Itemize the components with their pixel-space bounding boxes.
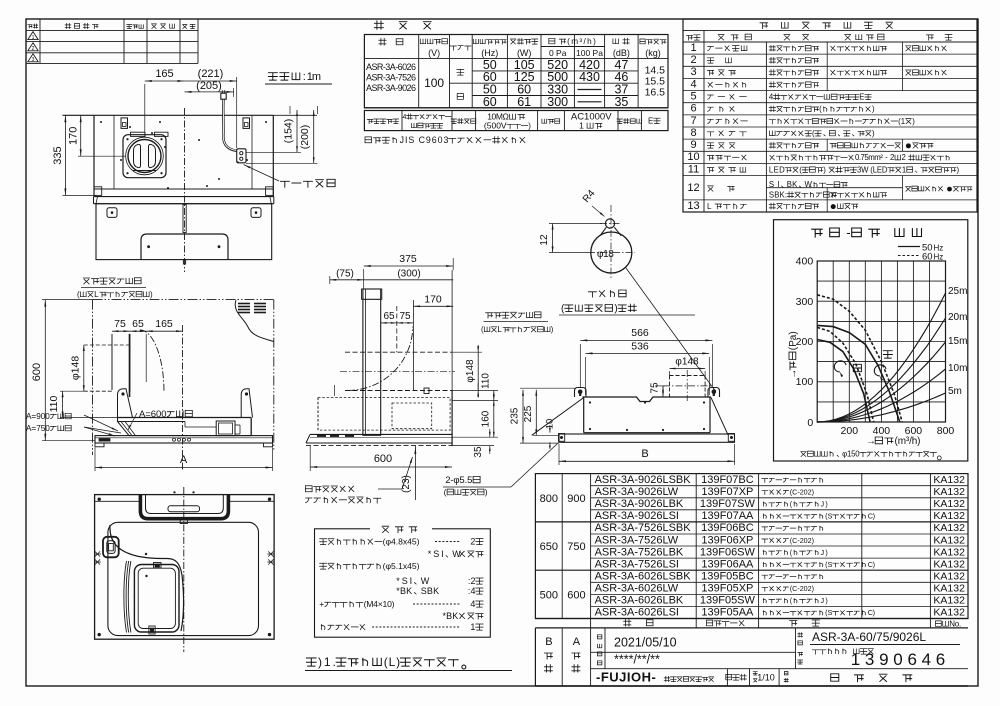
- svg-text:A: A: [573, 636, 581, 648]
- svg-text:35: 35: [614, 95, 628, 109]
- svg-text:170: 170: [424, 294, 442, 306]
- svg-text:3W (LED: 3W (LED: [857, 165, 888, 174]
- svg-text:75: 75: [399, 311, 411, 322]
- svg-text:KA132: KA132: [933, 474, 965, 486]
- svg-text:139F07XP: 139F07XP: [701, 486, 753, 498]
- svg-text:110: 110: [480, 373, 491, 389]
- svg-text:LED: LED: [769, 165, 785, 174]
- svg-text:φ148: φ148: [675, 357, 699, 368]
- svg-text:566: 566: [631, 327, 649, 339]
- svg-text:(154): (154): [283, 119, 295, 144]
- svg-text:E: E: [648, 117, 653, 126]
- svg-text:(: (: [819, 105, 822, 114]
- svg-text:Hz: Hz: [934, 253, 944, 262]
- svg-text:→: →: [866, 436, 876, 447]
- svg-text:11: 11: [688, 163, 699, 175]
- svg-text:139F06SW: 139F06SW: [700, 546, 756, 558]
- svg-text:(Hz): (Hz): [481, 48, 498, 58]
- svg-text:0 Pa: 0 Pa: [549, 48, 567, 58]
- svg-text:2: 2: [32, 46, 35, 52]
- svg-text:(V): (V): [428, 48, 440, 58]
- svg-text:(221): (221): [198, 68, 224, 80]
- svg-text:750: 750: [567, 541, 585, 553]
- svg-text:2: 2: [690, 54, 696, 66]
- svg-text:): ): [872, 105, 875, 114]
- svg-text:)1.: )1.: [318, 655, 336, 669]
- svg-text:139F05SW: 139F05SW: [700, 595, 756, 607]
- svg-text:(Pa): (Pa): [788, 331, 799, 350]
- svg-text:-FUJIOH-: -FUJIOH-: [596, 670, 656, 685]
- svg-text:139F05XP: 139F05XP: [701, 583, 753, 595]
- svg-text:****/**/**: ****/**/**: [614, 653, 660, 667]
- svg-text:): ): [872, 129, 875, 138]
- svg-text:): ): [957, 165, 960, 174]
- svg-text:ASR-3A-60/75/9026L: ASR-3A-60/75/9026L: [812, 630, 926, 644]
- svg-text:KA132: KA132: [933, 558, 965, 570]
- svg-text:W:: W:: [805, 180, 813, 189]
- svg-text:20m: 20m: [948, 312, 967, 323]
- svg-text:L: L: [94, 290, 99, 299]
- svg-text:100: 100: [424, 76, 444, 90]
- svg-text:φ18: φ18: [597, 249, 614, 260]
- svg-text:*BK: *BK: [443, 611, 459, 621]
- svg-text:(m³/h): (m³/h): [895, 436, 921, 447]
- svg-text:2021/05/10: 2021/05/10: [614, 636, 677, 650]
- svg-text:): ): [528, 122, 531, 131]
- svg-text:400: 400: [796, 256, 814, 268]
- svg-text:1 3 9 0 6 4 6: 1 3 9 0 6 4 6: [851, 650, 946, 669]
- svg-text:35: 35: [473, 446, 484, 458]
- svg-text:KA132: KA132: [933, 510, 965, 522]
- svg-text:*SI: *SI: [396, 576, 412, 586]
- svg-text:*BK: *BK: [396, 586, 412, 596]
- svg-text:139F05BC: 139F05BC: [701, 571, 754, 583]
- svg-text:ASR-3A-6026LW: ASR-3A-6026LW: [595, 583, 679, 595]
- svg-text:ASR-3A-6026: ASR-3A-6026: [366, 62, 416, 72]
- svg-text:(: (: [444, 487, 447, 497]
- svg-text:225: 225: [523, 405, 534, 422]
- svg-text:ASR-3A-6026LSI: ASR-3A-6026LSI: [595, 607, 679, 619]
- svg-text:10: 10: [545, 419, 556, 430]
- svg-text:200: 200: [841, 425, 859, 437]
- svg-text:0: 0: [807, 417, 813, 429]
- svg-text:15m: 15m: [948, 336, 967, 347]
- svg-text:SBK: SBK: [421, 586, 439, 596]
- svg-text:W: W: [452, 549, 461, 559]
- svg-text:φ148: φ148: [70, 356, 82, 380]
- svg-text:+: +: [319, 599, 324, 609]
- svg-text:B: B: [641, 448, 648, 460]
- svg-text:1: 1: [902, 165, 906, 174]
- svg-text:(dB): (dB): [613, 48, 630, 58]
- svg-text:1: 1: [579, 121, 584, 131]
- svg-text:ASR-3A-9026LSBK: ASR-3A-9026LSBK: [595, 474, 692, 486]
- svg-text:4: 4: [769, 93, 774, 102]
- svg-text:335: 335: [52, 146, 64, 164]
- svg-text:8: 8: [690, 127, 696, 139]
- svg-text:ASR-3A-6026LBK: ASR-3A-6026LBK: [595, 595, 684, 607]
- svg-text:60: 60: [483, 95, 497, 109]
- svg-text:12: 12: [539, 234, 550, 246]
- svg-text:A: A: [180, 454, 188, 466]
- svg-text:160: 160: [480, 410, 491, 427]
- svg-text:139F07SW: 139F07SW: [700, 498, 756, 510]
- svg-text:165: 165: [155, 68, 173, 80]
- svg-text:KA132: KA132: [933, 571, 965, 583]
- svg-text:16.5: 16.5: [645, 87, 666, 99]
- svg-text:4: 4: [690, 78, 696, 90]
- svg-text:(300): (300): [397, 269, 420, 280]
- svg-text:B: B: [545, 636, 552, 648]
- svg-text:65: 65: [383, 311, 395, 322]
- svg-text:110: 110: [48, 395, 60, 412]
- svg-text:AC1000V: AC1000V: [571, 112, 612, 123]
- svg-text:4: 4: [403, 114, 407, 121]
- svg-text:): ): [823, 165, 826, 174]
- svg-text:9: 9: [690, 139, 696, 151]
- svg-text:65: 65: [132, 318, 144, 330]
- svg-text:10m: 10m: [948, 363, 967, 374]
- svg-text::2: :2: [468, 576, 476, 586]
- svg-text:C): C): [868, 608, 875, 617]
- svg-text:*SI: *SI: [428, 549, 444, 559]
- svg-text:SBK:: SBK:: [769, 190, 787, 199]
- svg-text:: 1m: : 1m: [303, 71, 321, 83]
- svg-text:): ): [912, 117, 915, 126]
- svg-text:6: 6: [690, 103, 696, 115]
- svg-text:ASR-3A-7526: ASR-3A-7526: [366, 73, 416, 83]
- svg-text:800: 800: [937, 425, 955, 437]
- svg-text::4: :4: [468, 586, 476, 596]
- svg-text:13: 13: [687, 200, 699, 212]
- svg-text:(23): (23): [401, 475, 412, 493]
- svg-text:10: 10: [687, 151, 699, 163]
- svg-text:φ148: φ148: [465, 359, 476, 383]
- svg-text:): ): [150, 290, 153, 299]
- svg-text:ASR-3A-9026LSI: ASR-3A-9026LSI: [595, 510, 679, 522]
- svg-text:165: 165: [155, 318, 173, 330]
- svg-text:600: 600: [567, 589, 585, 601]
- svg-text:139F06XP: 139F06XP: [701, 534, 753, 546]
- svg-text:(C-202): (C-202): [790, 487, 814, 496]
- svg-text:BK: BK: [787, 180, 798, 189]
- svg-text:A=750: A=750: [26, 424, 50, 433]
- svg-text:ASR-3A-7526LW: ASR-3A-7526LW: [595, 534, 679, 546]
- svg-text:(500V: (500V: [484, 121, 507, 131]
- svg-text:100 Pa: 100 Pa: [576, 48, 603, 58]
- svg-text:(W): (W): [517, 48, 532, 58]
- svg-text:500: 500: [540, 589, 558, 601]
- svg-text:(205): (205): [196, 80, 222, 92]
- svg-text:E: E: [859, 93, 864, 102]
- svg-text:KA132: KA132: [933, 498, 965, 510]
- svg-text:KA132: KA132: [933, 534, 965, 546]
- svg-text:(: (: [812, 129, 815, 138]
- svg-text:): ): [614, 304, 617, 315]
- svg-text:(kg): (kg): [645, 48, 661, 58]
- svg-text:ASR-3A-9026LW: ASR-3A-9026LW: [595, 486, 679, 498]
- svg-text:(M4×10): (M4×10): [364, 599, 395, 609]
- svg-text:L: L: [497, 325, 502, 334]
- svg-text:A=600: A=600: [139, 409, 167, 420]
- svg-text:75: 75: [650, 382, 661, 394]
- svg-text:7: 7: [690, 115, 696, 127]
- svg-text:300: 300: [796, 296, 814, 308]
- svg-text:): ): [551, 325, 554, 334]
- svg-text:1: 1: [690, 42, 696, 54]
- svg-text:(S: (S: [825, 608, 833, 617]
- svg-text:(S: (S: [825, 512, 833, 521]
- svg-text:4: 4: [470, 599, 475, 609]
- svg-text:KA132: KA132: [933, 546, 965, 558]
- svg-text:1: 1: [32, 35, 35, 41]
- svg-text:A=900: A=900: [26, 412, 50, 421]
- svg-text:φ150: φ150: [842, 450, 860, 459]
- svg-text:0.75mm²: 0.75mm²: [855, 153, 883, 162]
- svg-text:300: 300: [547, 95, 568, 109]
- svg-text:KA132: KA132: [933, 583, 965, 595]
- svg-text:2: 2: [890, 153, 894, 162]
- svg-text:ASR-3A-9026LBK: ASR-3A-9026LBK: [595, 498, 684, 510]
- svg-text:C): C): [868, 560, 875, 569]
- svg-text:(L): (L): [384, 655, 400, 669]
- svg-text:375: 375: [399, 253, 417, 265]
- svg-text:(C-202): (C-202): [790, 536, 814, 545]
- svg-text:600: 600: [374, 453, 392, 465]
- svg-text:3: 3: [690, 66, 696, 78]
- svg-text:1/10: 1/10: [757, 673, 775, 683]
- svg-text:KA132: KA132: [933, 595, 965, 607]
- svg-text:139F05AA: 139F05AA: [701, 607, 754, 619]
- svg-text:(: (: [77, 290, 80, 299]
- svg-text:ASR-3A-7526LSI: ASR-3A-7526LSI: [595, 558, 679, 570]
- svg-text:600: 600: [31, 363, 43, 381]
- svg-text:900: 900: [567, 493, 585, 505]
- svg-text:25m: 25m: [948, 286, 967, 297]
- svg-text:C): C): [868, 512, 875, 521]
- svg-text:JIS C9603: JIS C9603: [400, 135, 449, 145]
- svg-text:KA132: KA132: [933, 486, 965, 498]
- svg-text:ASR-3A-7526LSBK: ASR-3A-7526LSBK: [595, 522, 692, 534]
- svg-text:2: 2: [902, 153, 906, 162]
- svg-text:800: 800: [540, 493, 558, 505]
- svg-text:2-φ5.5: 2-φ5.5: [445, 475, 472, 486]
- svg-text:(C-202): (C-202): [790, 584, 814, 593]
- svg-text:Hz: Hz: [934, 244, 944, 253]
- svg-text:5: 5: [690, 91, 696, 103]
- svg-text:430: 430: [579, 70, 600, 84]
- svg-text:(S: (S: [825, 560, 833, 569]
- svg-text:61: 61: [517, 95, 531, 109]
- svg-text:ASR-3A-9026: ASR-3A-9026: [366, 83, 416, 93]
- svg-text:75: 75: [114, 318, 126, 330]
- svg-text:(200): (200): [299, 125, 311, 150]
- svg-text:ASR-3A-7526LBK: ASR-3A-7526LBK: [595, 546, 684, 558]
- svg-text:KA132: KA132: [933, 522, 965, 534]
- svg-text:650: 650: [540, 541, 558, 553]
- svg-text:(75): (75): [336, 269, 354, 280]
- svg-text:(φ5.1x45): (φ5.1x45): [383, 561, 420, 571]
- svg-text:139F07AA: 139F07AA: [701, 510, 754, 522]
- svg-text:3: 3: [32, 57, 35, 63]
- svg-text:1: 1: [470, 622, 475, 632]
- svg-text:139F06BC: 139F06BC: [701, 522, 754, 534]
- svg-text:5m: 5m: [948, 386, 962, 397]
- svg-text:ASR-3A-6026LSBK: ASR-3A-6026LSBK: [595, 571, 692, 583]
- svg-text:170: 170: [68, 127, 80, 145]
- svg-text:2: 2: [470, 537, 475, 547]
- svg-text:(1: (1: [898, 117, 905, 126]
- svg-text:139F06AA: 139F06AA: [701, 558, 754, 570]
- svg-text:L: L: [707, 202, 712, 211]
- svg-text:12: 12: [687, 182, 699, 194]
- svg-text:): ): [485, 487, 488, 497]
- svg-text:No.: No.: [949, 620, 961, 629]
- svg-text:235: 235: [509, 407, 520, 424]
- svg-text:KA132: KA132: [933, 607, 965, 619]
- svg-text:(: (: [481, 325, 484, 334]
- svg-text:139F07BC: 139F07BC: [701, 474, 754, 486]
- svg-text:(φ4.8x45): (φ4.8x45): [383, 537, 420, 547]
- svg-text:536: 536: [631, 341, 649, 353]
- svg-text:-: -: [846, 225, 850, 240]
- svg-text:W: W: [421, 576, 430, 586]
